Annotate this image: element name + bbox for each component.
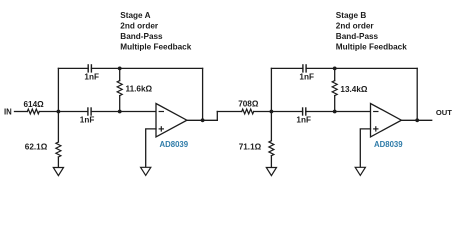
svg-text:Multiple Feedback: Multiple Feedback bbox=[120, 43, 191, 52]
wire interstage to resistor 708 bbox=[217, 111, 241, 113]
svg-text:AD8039: AD8039 bbox=[374, 140, 403, 149]
resistor 708Ω bbox=[238, 99, 259, 114]
node inverting input junction (stage B) bbox=[333, 110, 337, 114]
svg-text:71.1Ω: 71.1Ω bbox=[239, 142, 262, 151]
wire input lead bbox=[15, 111, 28, 113]
wire node A up to feedback top rail bbox=[57, 68, 59, 111]
resistor 13.4kΩ bbox=[332, 81, 368, 96]
wire resistor 13.4k bottom lead bbox=[334, 96, 336, 112]
resistor 614Ω bbox=[24, 100, 45, 114]
svg-text:IN: IN bbox=[4, 108, 12, 117]
node top junction (stage A) bbox=[118, 67, 122, 71]
svg-text:Stage A: Stage A bbox=[120, 11, 150, 20]
wire op-amp A output bbox=[187, 119, 217, 121]
svg-text:AD8039: AD8039 bbox=[160, 140, 189, 149]
wire series cap to op-amp B inverting input bbox=[306, 111, 371, 113]
node A junction bbox=[57, 110, 61, 114]
ground (below 71.1Ω) bbox=[266, 168, 276, 176]
wire junction to resistor 11.6k top lead bbox=[119, 68, 121, 80]
resistor 62.1Ω (to ground) bbox=[25, 112, 61, 168]
capacitor 1nF (top feedback, stage A) bbox=[84, 65, 99, 81]
ground (op-amp B non-inverting) bbox=[355, 167, 365, 175]
op-amp U2 AD8039 bbox=[371, 104, 404, 150]
svg-text:2nd order: 2nd order bbox=[120, 22, 159, 31]
svg-text:2nd order: 2nd order bbox=[336, 22, 375, 31]
svg-text:1nF: 1nF bbox=[299, 72, 314, 81]
svg-text:13.4kΩ: 13.4kΩ bbox=[340, 85, 367, 94]
wire feedback right vertical (stage A) bbox=[202, 68, 204, 120]
wire top rail left segment (stage B) bbox=[271, 67, 303, 69]
wire node B up to feedback top rail bbox=[270, 68, 272, 111]
capacitor 1nF (top feedback, stage B) bbox=[299, 65, 314, 81]
node output junction (stage B) bbox=[415, 118, 419, 122]
svg-text:1nF: 1nF bbox=[296, 116, 311, 125]
svg-text:1nF: 1nF bbox=[84, 72, 99, 81]
svg-text:Stage B: Stage B bbox=[336, 11, 367, 20]
ground (below 62.1Ω) bbox=[53, 168, 63, 176]
resistor 11.6kΩ bbox=[117, 81, 152, 96]
op-amp U1 AD8039 bbox=[156, 104, 189, 150]
wire top rail mid segment (stage B) bbox=[306, 67, 335, 69]
resistor 71.1Ω (to ground) bbox=[239, 112, 274, 168]
wire resistor to node A bbox=[39, 111, 58, 113]
wire resistor 708 to node B bbox=[254, 111, 272, 113]
svg-text:1nF: 1nF bbox=[80, 116, 95, 125]
wire top rail left segment bbox=[58, 67, 88, 69]
Stage B title block bbox=[336, 11, 407, 52]
wire node A to series cap bbox=[58, 111, 88, 113]
wire step up to interstage level bbox=[216, 112, 218, 121]
capacitor 1nF (series, stage A) bbox=[80, 108, 95, 125]
wire series cap to op-amp inverting input bbox=[91, 111, 156, 113]
svg-text:62.1Ω: 62.1Ω bbox=[25, 143, 48, 152]
wire op-amp B output bbox=[401, 119, 431, 121]
node inverting input junction (stage A) bbox=[118, 110, 122, 114]
wire junction to resistor 13.4k top lead bbox=[334, 68, 336, 80]
wire node B to series cap (stage B) bbox=[271, 111, 302, 113]
Stage A title block bbox=[120, 11, 191, 52]
wire top rail right segment (stage B) bbox=[335, 67, 418, 69]
wire non-inverting input to ground (stage B) bbox=[360, 129, 370, 167]
capacitor 1nF (series, stage B) bbox=[296, 108, 311, 125]
node output junction (stage A) bbox=[201, 118, 205, 122]
wire top rail right segment bbox=[120, 67, 203, 69]
node top junction (stage B) bbox=[333, 67, 337, 71]
svg-text:Multiple Feedback: Multiple Feedback bbox=[336, 43, 407, 52]
wire non-inverting input to ground (stage A) bbox=[146, 129, 156, 167]
svg-text:614Ω: 614Ω bbox=[24, 100, 45, 109]
svg-text:OUT: OUT bbox=[436, 108, 452, 117]
wire feedback right vertical (stage B) bbox=[416, 68, 418, 120]
svg-text:Band-Pass: Band-Pass bbox=[120, 32, 163, 41]
node B junction bbox=[270, 110, 274, 114]
wire top rail mid segment bbox=[91, 67, 119, 69]
svg-text:11.6kΩ: 11.6kΩ bbox=[126, 85, 153, 94]
wire resistor 11.6k bottom lead bbox=[119, 96, 121, 112]
svg-text:Band-Pass: Band-Pass bbox=[336, 32, 379, 41]
svg-text:708Ω: 708Ω bbox=[238, 99, 259, 108]
ground (op-amp A non-inverting) bbox=[141, 167, 151, 175]
